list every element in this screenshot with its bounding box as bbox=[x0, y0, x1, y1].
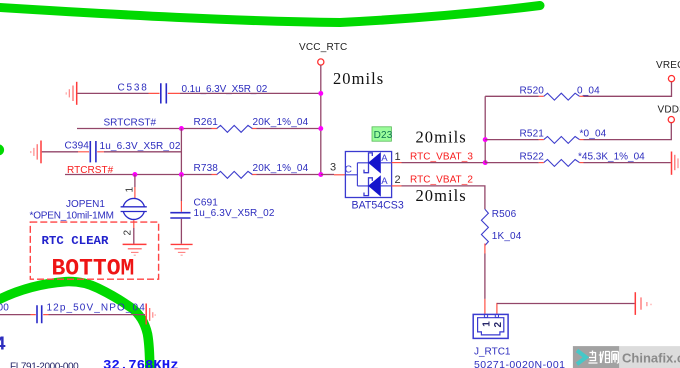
svg-text:J_RTC1: J_RTC1 bbox=[474, 347, 511, 358]
junction bbox=[318, 91, 323, 96]
svg-text:20mils: 20mils bbox=[416, 186, 467, 205]
ground (left of C538) bbox=[66, 82, 77, 105]
capacitor 12p_50V_NPO_04 bbox=[31, 303, 146, 324]
green marker oval bottom-left bbox=[0, 282, 150, 368]
wire R520 to VREG bbox=[584, 82, 672, 97]
svg-text:Chinafix.com: Chinafix.com bbox=[622, 351, 680, 366]
svg-text:RTC_VBAT_2: RTC_VBAT_2 bbox=[410, 174, 473, 185]
capacitor C538 bbox=[118, 83, 268, 104]
wire vertical x181 bbox=[180, 129, 182, 175]
wire riser to R520/R521 bbox=[484, 96, 486, 162]
RTC CLEAR dashed box bbox=[30, 222, 158, 279]
wire R522 to ground bbox=[584, 162, 671, 164]
wire RTC_VBAT_3 bbox=[402, 162, 486, 164]
wire VCC_RTC vertical bbox=[320, 65, 322, 174]
svg-text:20mils: 20mils bbox=[333, 69, 384, 88]
green marker blob left edge bbox=[0, 144, 4, 155]
resistor R506 bbox=[481, 209, 521, 314]
resistor R520 bbox=[485, 85, 600, 100]
junction bbox=[318, 126, 323, 131]
wire C538 row bbox=[77, 92, 148, 94]
svg-text:BOTTOM: BOTTOM bbox=[52, 256, 135, 282]
wire C394 to vertical bbox=[104, 151, 181, 153]
wire 12p to ground bbox=[49, 314, 146, 316]
svg-text:VDD3V: VDD3V bbox=[658, 104, 680, 115]
svg-text:1u_6.3V_X5R_02: 1u_6.3V_X5R_02 bbox=[100, 141, 181, 152]
green marker curve top bbox=[0, 6, 540, 23]
svg-text:R520: R520 bbox=[520, 85, 545, 96]
svg-text:JOPEN1: JOPEN1 bbox=[66, 199, 105, 210]
svg-text:20K_1%_04: 20K_1%_04 bbox=[253, 117, 309, 128]
svg-text:0_04: 0_04 bbox=[577, 85, 600, 96]
power symbol VDD3V bbox=[658, 104, 680, 122]
svg-text:R522: R522 bbox=[520, 151, 545, 162]
internal cathode bus bbox=[345, 163, 368, 186]
connector J_RTC1 bbox=[473, 314, 565, 368]
pin 2 wire bbox=[133, 220, 135, 228]
svg-text:*OPEN_10mil-1MM: *OPEN_10mil-1MM bbox=[30, 210, 114, 221]
svg-text:2: 2 bbox=[395, 174, 401, 186]
svg-text:RTC CLEAR: RTC CLEAR bbox=[42, 234, 109, 248]
svg-text:32.768KHz: 32.768KHz bbox=[103, 358, 179, 368]
resistor R261 bbox=[194, 117, 309, 133]
pin 1 wire bbox=[134, 175, 136, 188]
ground (left of C394) bbox=[31, 141, 41, 164]
svg-text:VCC_RTC: VCC_RTC bbox=[299, 42, 347, 53]
ground (right of R522) bbox=[672, 152, 679, 175]
svg-text:A: A bbox=[381, 176, 388, 187]
svg-text:*45.3K_1%_04: *45.3K_1%_04 bbox=[578, 151, 645, 162]
wire RTCRST row bbox=[65, 174, 321, 176]
junction bbox=[483, 137, 488, 142]
pin 2 stub bbox=[392, 185, 402, 187]
svg-text:4: 4 bbox=[0, 334, 6, 356]
svg-text:1: 1 bbox=[482, 321, 493, 327]
svg-text:1: 1 bbox=[125, 187, 136, 193]
watermark bbox=[573, 346, 680, 368]
wire 12p row bbox=[0, 314, 31, 316]
power symbol VREGIN bbox=[656, 60, 680, 82]
svg-text:D23: D23 bbox=[374, 130, 393, 141]
svg-text:R506: R506 bbox=[492, 209, 517, 220]
svg-text:C538: C538 bbox=[118, 83, 149, 94]
wire SRTCRST row bbox=[77, 128, 321, 130]
svg-text:R521: R521 bbox=[520, 129, 545, 140]
svg-text:SRTCRST#: SRTCRST# bbox=[104, 118, 157, 129]
junction bbox=[179, 126, 184, 131]
wire C538 to VCC node bbox=[180, 92, 321, 94]
svg-text:1K_04: 1K_04 bbox=[492, 231, 522, 242]
svg-text:C: C bbox=[345, 165, 352, 176]
svg-text:50271-0020N-001: 50271-0020N-001 bbox=[474, 359, 565, 368]
svg-text:20mils: 20mils bbox=[416, 128, 467, 147]
jumper JOPEN1 bbox=[30, 175, 147, 244]
svg-text:R261: R261 bbox=[194, 117, 219, 128]
svg-text:20K_1%_04: 20K_1%_04 bbox=[253, 163, 309, 174]
svg-text:C691: C691 bbox=[194, 198, 219, 209]
ground (right of 12p) bbox=[146, 304, 155, 325]
diode bottom bbox=[364, 178, 372, 196]
svg-text:00: 00 bbox=[0, 303, 9, 314]
ground (below C691) bbox=[171, 244, 193, 255]
svg-text:A: A bbox=[381, 153, 388, 164]
wire R521 to VDD3 bbox=[584, 123, 672, 140]
wire C394 row bbox=[42, 151, 78, 153]
svg-text:1u_6.3V_X5R_02: 1u_6.3V_X5R_02 bbox=[194, 208, 275, 219]
junction bbox=[483, 160, 488, 165]
wire J_RTC1 pin2 to ground bbox=[497, 303, 635, 305]
svg-text:BAT54CS3: BAT54CS3 bbox=[352, 199, 404, 211]
diode top bbox=[364, 153, 372, 173]
svg-text:1: 1 bbox=[395, 151, 401, 163]
resistor R738 bbox=[194, 163, 309, 178]
pin 3 wire to BAT54 bbox=[321, 174, 334, 176]
svg-text:12p_50V_NPO_04: 12p_50V_NPO_04 bbox=[47, 303, 146, 314]
svg-text:FL791-2000-000: FL791-2000-000 bbox=[10, 362, 79, 368]
capacitor C394 bbox=[65, 141, 181, 163]
svg-text:*0_04: *0_04 bbox=[580, 129, 607, 140]
resistor R521 bbox=[485, 129, 606, 144]
junction bbox=[318, 172, 323, 177]
pin 1 stub bbox=[392, 162, 402, 164]
junction bbox=[132, 172, 137, 177]
svg-text:2: 2 bbox=[123, 230, 134, 236]
power symbol VCC_RTC bbox=[299, 42, 347, 65]
svg-text:VREGIN: VREGIN bbox=[656, 60, 680, 71]
svg-text:2: 2 bbox=[493, 322, 504, 328]
junction bbox=[179, 172, 184, 177]
wire RTC_VBAT_2 bbox=[402, 186, 485, 209]
ground (below JOPEN1) bbox=[123, 244, 147, 255]
diode D23 BAT54CS3 bbox=[345, 127, 404, 212]
ground (right of J_RTC1) bbox=[635, 292, 651, 315]
svg-text:RTC_VBAT_3: RTC_VBAT_3 bbox=[410, 152, 473, 163]
svg-text:3: 3 bbox=[330, 162, 336, 174]
capacitor C691 bbox=[170, 175, 275, 244]
svg-text:R738: R738 bbox=[194, 163, 219, 174]
resistor R522 bbox=[485, 151, 645, 166]
svg-text:C394: C394 bbox=[65, 141, 90, 152]
